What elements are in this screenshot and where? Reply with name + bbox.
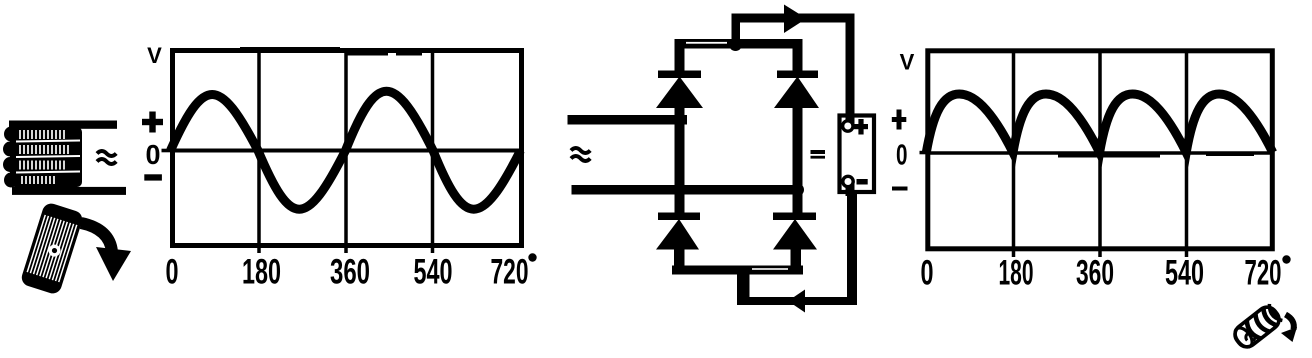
label - (in box) [857, 179, 868, 185]
svg-text:180: 180 [242, 253, 281, 292]
graph 2 x labels: 0 180 360 540 720 [921, 254, 1282, 293]
wire: right bridge rail [793, 104, 803, 216]
DC symbol = [811, 150, 826, 159]
wire: right rise from - terminal [847, 184, 857, 305]
AC symbol (next to generator) [97, 151, 116, 164]
graph 2 frame [928, 51, 1273, 249]
graph 1 gridlines [259, 51, 433, 246]
label + (in box) [854, 119, 868, 135]
mini rotation arrow [1281, 315, 1297, 343]
terminal circle - [843, 176, 853, 186]
svg-text:360: 360 [330, 253, 370, 292]
svg-text:V: V [147, 43, 162, 68]
scan sliver in cathode bus [686, 42, 727, 44]
current arrow (bottom, pointing left) [788, 290, 805, 313]
junction: jog to cathode bus [729, 38, 742, 51]
svg-text:720: 720 [491, 253, 529, 292]
diode D1 (top-left) [656, 44, 703, 108]
generator G1 rotor magnet [20, 201, 85, 295]
graph 1 zero tick (left of frame) [162, 149, 172, 153]
svg-text:360: 360 [1076, 254, 1114, 293]
graph 2 rectified waveform (4 humps) [926, 94, 1273, 153]
wire: right drop to output box [846, 14, 855, 124]
wire into + terminal [846, 113, 855, 125]
label minus (graph 1) [144, 174, 162, 180]
diode D3 (bottom-left) [656, 213, 700, 271]
label minus (graph 2) [892, 187, 908, 191]
graph 1 x-axis ticks [259, 245, 433, 253]
graph 1 x labels: 0 180 360 540 720 [166, 253, 529, 292]
svg-text:V: V [900, 50, 915, 75]
current arrow (top, pointing right) [784, 5, 807, 34]
wire: anode bus (bottom) [672, 266, 803, 275]
label plus (graph 2) [892, 110, 907, 130]
graph 2 zero axis [928, 151, 1273, 155]
wire: lower bus to - terminal [737, 297, 857, 305]
label plus (graph 1) [142, 112, 163, 133]
wire: lower AC input [572, 185, 803, 195]
wire: cathode bus (top) [675, 39, 803, 49]
graph 1 sine waveform [171, 91, 521, 209]
wire: generator bottom lead [12, 187, 126, 195]
graph 2 gridlines [1014, 51, 1187, 250]
mini rotor icon (bottom right) [1231, 303, 1283, 351]
svg-text:0: 0 [896, 139, 908, 171]
generator rotation arrow [81, 223, 131, 281]
wire: upper AC input [568, 115, 688, 125]
graph 2 zero tick (left of frame) [920, 151, 929, 155]
junction: lower AC to right rail [791, 183, 804, 196]
svg-text:540: 540 [1165, 254, 1204, 293]
graph 1 zero axis [173, 149, 522, 153]
wire: bottom output jog (down from anode bus) [737, 266, 750, 305]
terminal circle + [843, 121, 853, 131]
svg-text:540: 540 [414, 253, 453, 292]
svg-text:0: 0 [146, 139, 161, 170]
wire out of - terminal [846, 182, 855, 196]
svg-text:0: 0 [921, 254, 934, 293]
graph 1 frame [173, 51, 522, 246]
svg-text:180: 180 [999, 254, 1034, 293]
wire: left bridge rail [675, 104, 685, 216]
AC input symbol (bridge) [571, 148, 590, 161]
junction: upper AC to left rail [673, 113, 686, 126]
degree mark (graph 2) [1282, 255, 1290, 263]
scan smudge on graph 1 top edge [240, 47, 340, 53]
svg-text:0: 0 [166, 253, 179, 292]
scan thickening on graph 2 zero axis [1058, 152, 1160, 158]
degree mark (graph 1) [528, 253, 536, 261]
wire: top output jog (up from cathode bus) [732, 14, 741, 46]
wire: top bus to + terminal [732, 14, 854, 23]
diode D4 (bottom-right) [773, 213, 817, 271]
scan sliver in anode bus [752, 268, 788, 270]
graph 2 x-axis ticks [1014, 249, 1187, 257]
svg-text:720: 720 [1245, 254, 1282, 293]
generator G1 coil (stator) [3, 127, 82, 188]
diode D2 (top-right) [774, 44, 819, 108]
wire: generator top lead [9, 121, 117, 129]
output terminal box [840, 116, 875, 193]
